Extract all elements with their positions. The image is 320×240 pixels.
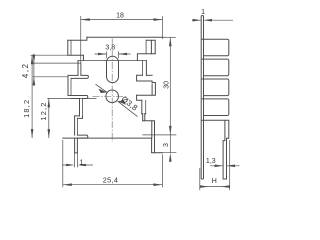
svg-text:1,3: 1,3: [206, 158, 216, 165]
svg-text:3,8: 3,8: [105, 44, 115, 51]
svg-text:18: 18: [116, 13, 124, 20]
svg-text:1: 1: [80, 160, 84, 167]
svg-text:18,2: 18,2: [22, 99, 31, 118]
svg-text:4,2: 4,2: [21, 62, 30, 78]
svg-text:H: H: [212, 178, 217, 185]
svg-text:30: 30: [164, 81, 171, 89]
svg-text:1: 1: [201, 9, 205, 16]
svg-text:3: 3: [163, 143, 170, 147]
svg-text:25,4: 25,4: [103, 176, 118, 185]
svg-text:12,2: 12,2: [39, 101, 48, 120]
